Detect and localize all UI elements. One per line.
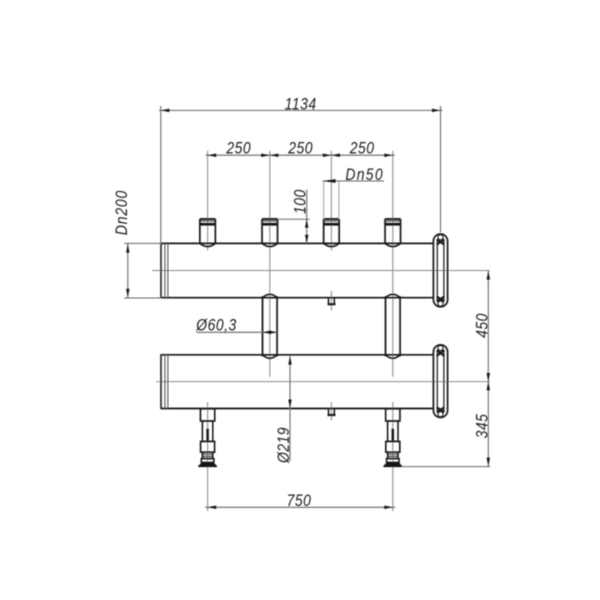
svg-text:750: 750 [287, 492, 312, 511]
svg-text:250: 250 [225, 139, 251, 158]
svg-text:Ø60,3: Ø60,3 [195, 316, 236, 335]
svg-text:Ø219: Ø219 [275, 427, 294, 464]
svg-text:250: 250 [349, 139, 375, 158]
svg-text:345: 345 [473, 414, 492, 439]
svg-text:100: 100 [291, 189, 310, 214]
svg-text:250: 250 [287, 139, 313, 158]
svg-text:450: 450 [473, 313, 492, 338]
svg-text:Dn50: Dn50 [345, 166, 384, 185]
svg-text:Dn200: Dn200 [113, 190, 132, 235]
svg-text:1134: 1134 [285, 95, 317, 114]
